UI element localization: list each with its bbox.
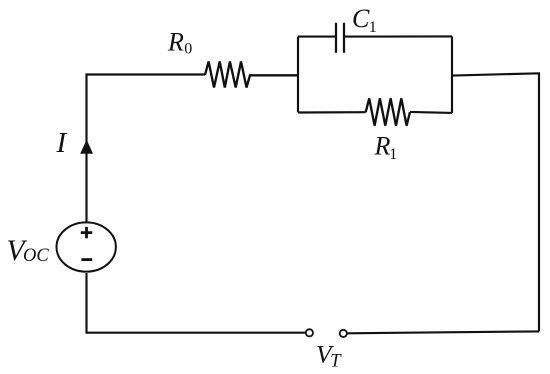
svg-text:R: R [167, 28, 184, 57]
svg-text:C: C [352, 4, 370, 33]
svg-text:I: I [56, 127, 68, 159]
svg-text:1: 1 [369, 19, 377, 36]
svg-text:T: T [330, 352, 342, 372]
svg-text:OC: OC [23, 246, 49, 266]
svg-text:R: R [374, 131, 391, 160]
svg-text:1: 1 [389, 146, 397, 163]
svg-text:0: 0 [184, 41, 192, 58]
